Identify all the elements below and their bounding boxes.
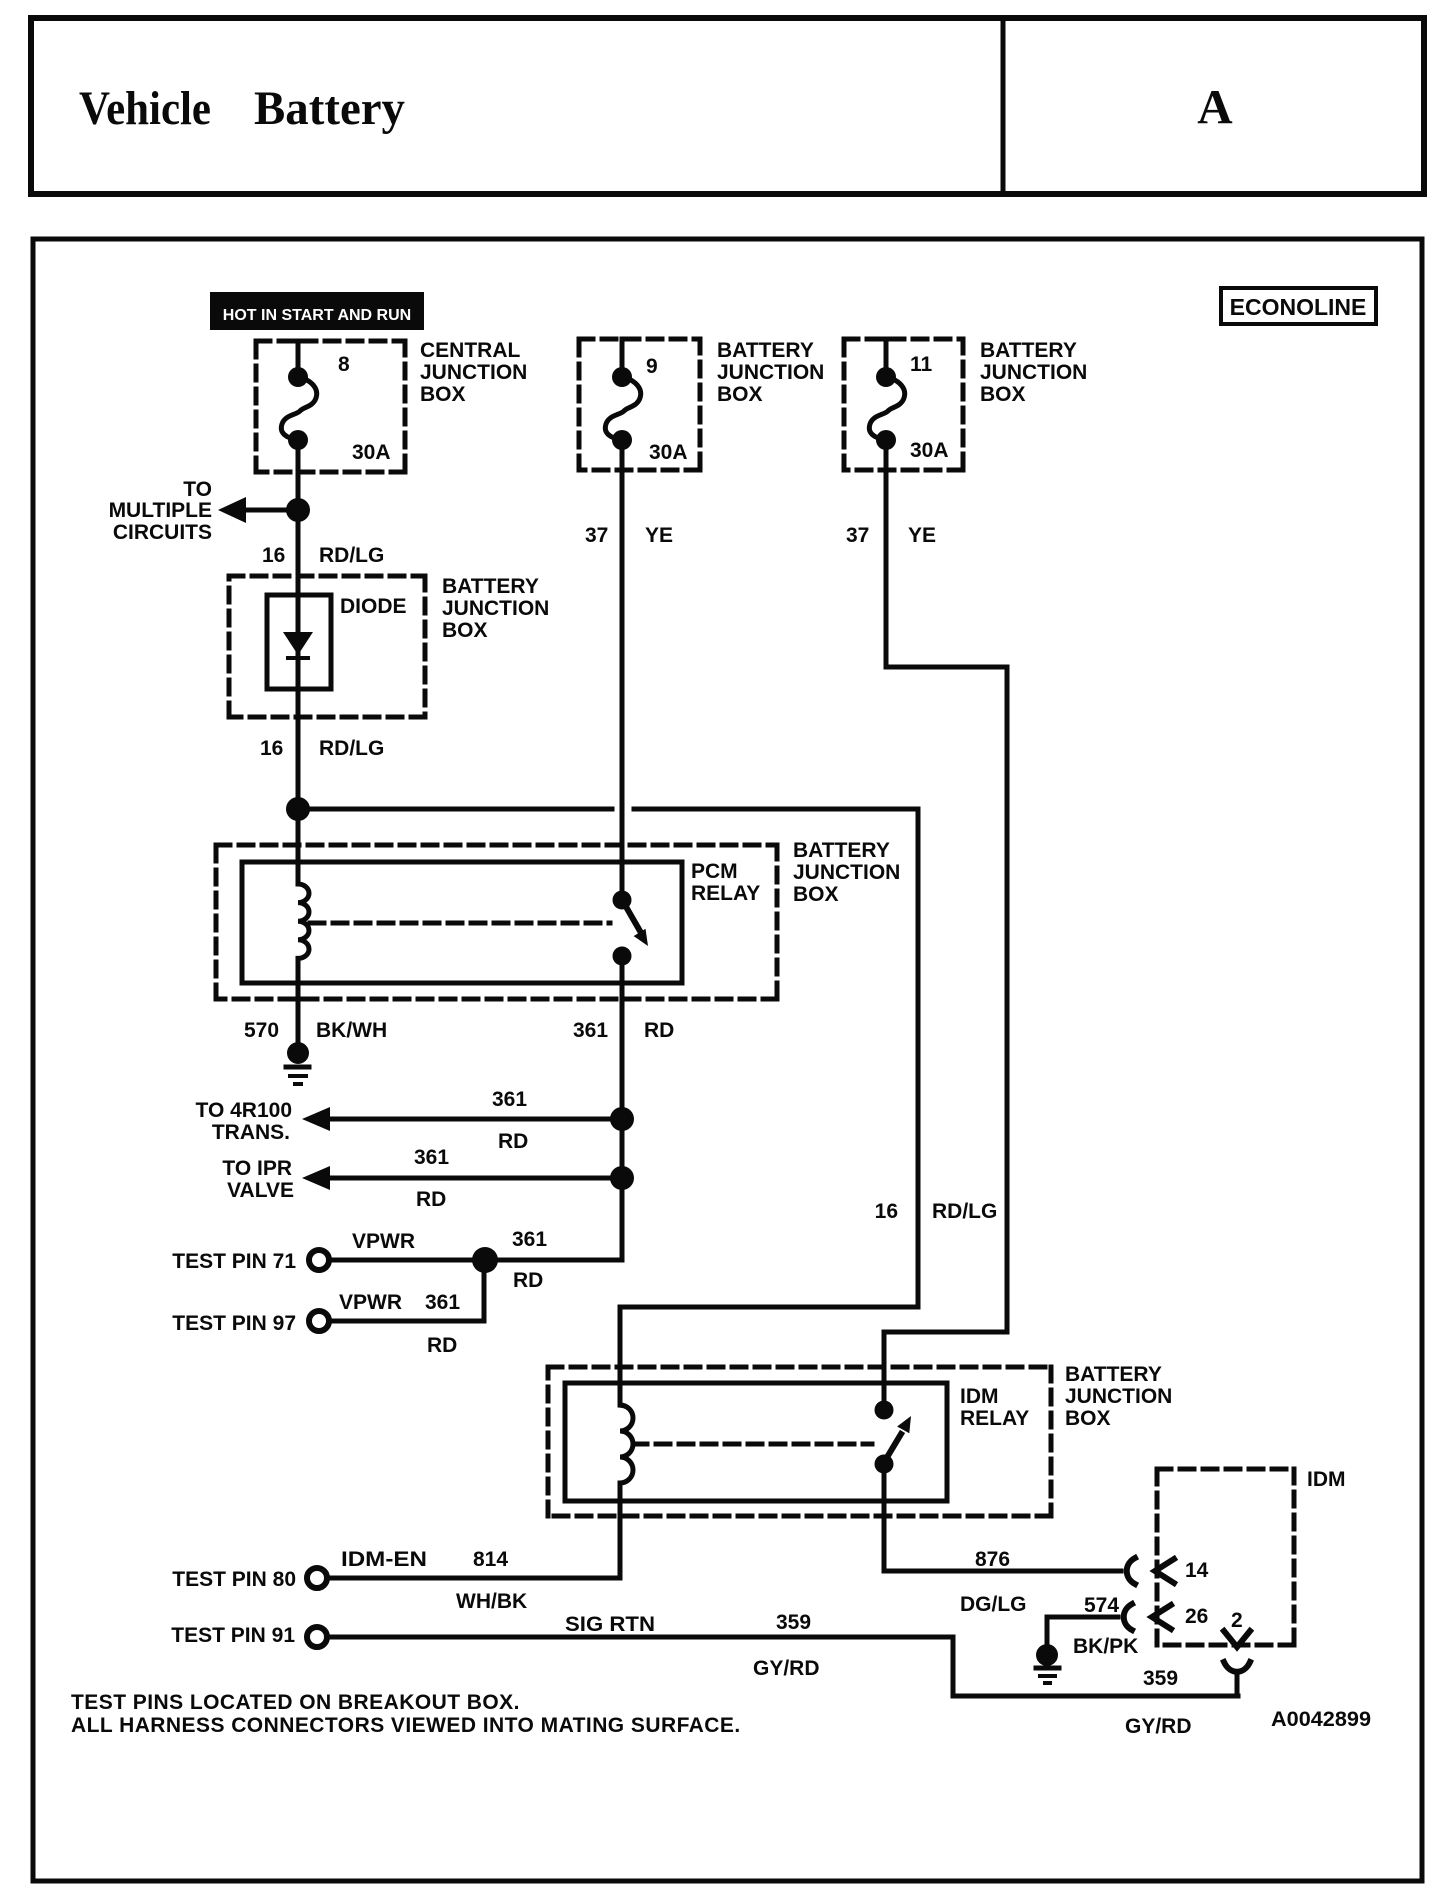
svg-text:GY/RD: GY/RD: [1125, 1715, 1192, 1738]
svg-text:CIRCUITS: CIRCUITS: [113, 521, 212, 544]
connector pin 2 (female half): [1224, 1662, 1250, 1696]
svg-text:Vehicle: Vehicle: [79, 82, 211, 135]
title text "Vehicle Battery": [79, 82, 405, 135]
test pin 80: [172, 1568, 327, 1591]
wire fuse 11 top stub: [884, 339, 889, 377]
wire label SIG RTN 359 GY/RD: [565, 1611, 820, 1680]
fuse F9 dashed box (battery junction box): [579, 339, 700, 470]
svg-text:30A: 30A: [352, 441, 391, 464]
svg-text:TEST PIN 80: TEST PIN 80: [172, 1568, 296, 1591]
PCM relay switch: [613, 891, 649, 966]
svg-text:11: 11: [910, 353, 933, 376]
wire 574 to connector 26: [1047, 1617, 1118, 1644]
svg-text:RD: RD: [427, 1334, 457, 1357]
banner HOT IN START AND RUN: [210, 292, 424, 330]
wire label VPWR 361 RD (pin 71): [352, 1228, 547, 1292]
svg-text:IDM-EN: IDM-EN: [341, 1548, 427, 1571]
svg-text:TO IPR: TO IPR: [222, 1157, 292, 1180]
svg-text:IDM: IDM: [960, 1385, 999, 1408]
svg-text:RD: RD: [513, 1269, 543, 1292]
wire IDM switch to connector 14 (876): [884, 1464, 1121, 1571]
svg-text:VALVE: VALVE: [227, 1179, 294, 1202]
svg-text:BATTERY: BATTERY: [717, 339, 814, 362]
svg-text:876: 876: [975, 1548, 1010, 1571]
svg-text:Battery: Battery: [254, 82, 405, 135]
fuse F8 element: [281, 367, 316, 450]
svg-text:JUNCTION: JUNCTION: [980, 361, 1087, 384]
PCM relay dashed box (battery junction box): [216, 845, 777, 999]
svg-text:26: 26: [1185, 1605, 1208, 1628]
connector pin 2 (male pin, at IDM box bottom): [1224, 1609, 1250, 1647]
svg-text:BOX: BOX: [1065, 1407, 1111, 1430]
svg-text:A0042899: A0042899: [1271, 1708, 1371, 1731]
svg-text:VPWR: VPWR: [339, 1291, 402, 1314]
label CENTRAL JUNCTION BOX: [420, 339, 527, 406]
node junction VPWR: [472, 1247, 498, 1273]
svg-text:TEST PINS LOCATED ON BREAKOUT: TEST PINS LOCATED ON BREAKOUT BOX.: [71, 1691, 520, 1714]
svg-text:YE: YE: [645, 524, 673, 547]
label DIODE: [340, 595, 407, 618]
wire label 37 YE (fuse 9): [585, 524, 673, 547]
svg-text:TRANS.: TRANS.: [212, 1121, 290, 1144]
svg-text:RD/LG: RD/LG: [319, 544, 384, 567]
svg-text:RD/LG: RD/LG: [932, 1200, 997, 1223]
IDM relay inner box: [565, 1383, 947, 1501]
fuse F9 element: [605, 367, 640, 450]
svg-text:TEST PIN 97: TEST PIN 97: [172, 1312, 296, 1335]
svg-text:VPWR: VPWR: [352, 1230, 415, 1253]
node junction IPR tap: [610, 1166, 634, 1190]
wire label VPWR 361 RD (pin 97): [339, 1291, 460, 1357]
svg-text:TEST PIN 71: TEST PIN 71: [172, 1250, 296, 1273]
svg-text:37: 37: [585, 524, 608, 547]
wire PCM switch down to test pin 71 line: [620, 956, 625, 1259]
svg-text:RD: RD: [498, 1130, 528, 1153]
node junction 16 RD/LG branch: [286, 797, 310, 821]
svg-text:BOX: BOX: [980, 383, 1026, 406]
svg-text:30A: 30A: [910, 439, 949, 462]
connector pin 26 (male pin): [1152, 1605, 1208, 1629]
wire label 37 YE (fuse 11): [846, 524, 936, 547]
wire test pin 71 to 361 node: [331, 1258, 622, 1263]
page letter A: [1197, 79, 1233, 134]
wire SIG RTN 359: [329, 1637, 1238, 1696]
wire test pin 80 to IDM coil: [329, 1576, 620, 1581]
label IDM RELAY: [960, 1385, 1029, 1430]
wire label 574 BK/PK: [1073, 1594, 1138, 1658]
arrow TO MULTIPLE CIRCUITS: [218, 497, 298, 523]
svg-text:14: 14: [1185, 1559, 1209, 1582]
diode D1 symbol: [283, 632, 313, 658]
svg-text:ECONOLINE: ECONOLINE: [1230, 294, 1367, 320]
wire fuse 11 down and over: [884, 440, 1007, 1410]
fuse F8 value labels 8 / 30A: [338, 353, 391, 464]
test pin 91: [171, 1624, 327, 1647]
title block divider: [1001, 18, 1006, 194]
svg-text:TO: TO: [183, 478, 212, 501]
wire fuse 8 to diode: [296, 440, 301, 595]
fuse F11 dashed box (battery junction box): [844, 339, 963, 470]
wire label 361 RD (4R100): [492, 1088, 528, 1153]
svg-text:359: 359: [1143, 1667, 1178, 1690]
wire label 16 RD/LG (upper): [262, 544, 384, 567]
label TO IPR VALVE: [222, 1157, 294, 1202]
svg-text:30A: 30A: [649, 441, 688, 464]
svg-text:570: 570: [244, 1019, 279, 1042]
svg-text:CENTRAL: CENTRAL: [420, 339, 520, 362]
diode dashed box (battery junction box): [229, 576, 425, 717]
svg-text:16: 16: [260, 737, 283, 760]
label BATTERY JUNCTION BOX (PCM relay): [793, 839, 900, 906]
svg-text:TO 4R100: TO 4R100: [196, 1099, 293, 1122]
wire fuse 9 top stub: [620, 339, 625, 377]
svg-text:16: 16: [262, 544, 285, 567]
arrow TO IPR VALVE: [302, 1166, 622, 1190]
svg-text:JUNCTION: JUNCTION: [1065, 1385, 1172, 1408]
node junction 4R100 tap: [610, 1107, 634, 1131]
svg-text:BOX: BOX: [717, 383, 763, 406]
drawing number A0042899: [1271, 1708, 1371, 1731]
svg-text:MULTIPLE: MULTIPLE: [109, 499, 212, 522]
wire label 16 RD/LG (lower): [260, 737, 384, 760]
svg-text:8: 8: [338, 353, 350, 376]
wire test pin 97 branch: [331, 1260, 484, 1321]
svg-text:361: 361: [414, 1146, 449, 1169]
wire label 876 DG/LG: [960, 1548, 1027, 1616]
svg-text:JUNCTION: JUNCTION: [717, 361, 824, 384]
connector pin 14 (male pin): [1155, 1559, 1209, 1583]
wire fuse 8 top stub: [296, 341, 301, 377]
svg-text:BOX: BOX: [442, 619, 488, 642]
svg-text:361: 361: [512, 1228, 547, 1251]
label IDM: [1307, 1468, 1346, 1491]
IDM relay coil: [620, 1405, 633, 1578]
test pin 71: [172, 1250, 329, 1273]
svg-text:RD/LG: RD/LG: [319, 737, 384, 760]
ground G2: [1036, 1644, 1059, 1683]
wire branch to IDM relay coil (16 RD/LG): [298, 809, 918, 1405]
svg-text:361: 361: [492, 1088, 527, 1111]
wire label 359 GY/RD (right): [1125, 1667, 1192, 1738]
svg-text:JUNCTION: JUNCTION: [442, 597, 549, 620]
note TEST PINS LOCATED ON BREAKOUT BOX: [71, 1691, 520, 1714]
PCM relay coil: [298, 809, 309, 1040]
svg-text:37: 37: [846, 524, 869, 547]
svg-text:JUNCTION: JUNCTION: [420, 361, 527, 384]
svg-text:814: 814: [473, 1548, 508, 1571]
svg-text:BOX: BOX: [793, 883, 839, 906]
svg-text:RD: RD: [416, 1188, 446, 1211]
svg-text:BATTERY: BATTERY: [793, 839, 890, 862]
wire label 361 RD: [573, 1019, 674, 1042]
svg-text:361: 361: [573, 1019, 608, 1042]
wire label 570 BK/WH: [244, 1019, 387, 1042]
PCM relay actuating dashed link: [310, 921, 610, 926]
svg-text:DG/LG: DG/LG: [960, 1593, 1027, 1616]
svg-text:RD: RD: [644, 1019, 674, 1042]
label BATTERY JUNCTION BOX (IDM relay): [1065, 1363, 1172, 1430]
svg-text:ALL HARNESS CONNECTORS VIEWED: ALL HARNESS CONNECTORS VIEWED INTO MATIN…: [71, 1714, 741, 1737]
wire label 361 RD (IPR): [414, 1146, 449, 1211]
svg-text:RELAY: RELAY: [691, 882, 760, 905]
fuse F11 element: [869, 367, 904, 450]
svg-text:YE: YE: [908, 524, 936, 547]
svg-text:9: 9: [646, 355, 658, 378]
ECONOLINE tag: [1221, 288, 1376, 324]
svg-text:BATTERY: BATTERY: [1065, 1363, 1162, 1386]
PCM relay inner box: [242, 862, 682, 983]
svg-text:RELAY: RELAY: [960, 1407, 1029, 1430]
fuse F11 value labels 11 / 30A: [910, 353, 949, 462]
label BATTERY JUNCTION BOX (fuse 9): [717, 339, 824, 406]
svg-text:JUNCTION: JUNCTION: [793, 861, 900, 884]
svg-text:BK/PK: BK/PK: [1073, 1635, 1138, 1658]
label PCM RELAY: [691, 860, 760, 905]
fuse F8 dashed box (central junction box): [256, 341, 405, 472]
connector pin 14 (female half): [1127, 1558, 1135, 1584]
svg-text:DIODE: DIODE: [340, 595, 407, 618]
svg-text:PCM: PCM: [691, 860, 738, 883]
svg-text:GY/RD: GY/RD: [753, 1657, 820, 1680]
svg-text:SIG RTN: SIG RTN: [565, 1613, 655, 1636]
label TO MULTIPLE CIRCUITS: [109, 478, 212, 544]
svg-text:A: A: [1197, 79, 1233, 134]
test pin 97: [172, 1311, 329, 1335]
svg-text:361: 361: [425, 1291, 460, 1314]
arrow TO 4R100 TRANS: [302, 1107, 622, 1131]
connector pin 26 (female half): [1124, 1604, 1132, 1630]
label TO 4R100 TRANS.: [196, 1099, 293, 1144]
svg-text:BK/WH: BK/WH: [316, 1019, 387, 1042]
svg-text:IDM: IDM: [1307, 1468, 1346, 1491]
node junction at multiple circuits tap: [286, 498, 310, 522]
label BATTERY JUNCTION BOX (diode): [442, 575, 549, 642]
svg-text:574: 574: [1084, 1594, 1119, 1617]
IDM relay actuating dashed link: [633, 1442, 872, 1447]
IDM relay dashed box (battery junction box): [548, 1367, 1051, 1516]
svg-text:BATTERY: BATTERY: [980, 339, 1077, 362]
diode inner box: [267, 595, 331, 689]
svg-text:WH/BK: WH/BK: [456, 1590, 527, 1613]
IDM relay switch: [875, 1401, 912, 1474]
svg-text:BATTERY: BATTERY: [442, 575, 539, 598]
svg-text:2: 2: [1231, 1609, 1243, 1632]
fuse F9 value labels 9 / 30A: [646, 355, 688, 464]
wire label IDM-EN 814 WH/BK: [341, 1548, 527, 1613]
wire label 16 RD/LG (right): [875, 1200, 998, 1223]
svg-text:HOT IN START AND RUN: HOT IN START AND RUN: [223, 307, 411, 324]
IDM dashed box: [1157, 1469, 1294, 1645]
svg-text:BOX: BOX: [420, 383, 466, 406]
svg-text:359: 359: [776, 1611, 811, 1634]
svg-text:TEST PIN 91: TEST PIN 91: [171, 1624, 295, 1647]
note ALL HARNESS CONNECTORS VIEWED INTO MATING SURFACE: [71, 1714, 741, 1737]
wire fuse 9 down to PCM relay switch: [620, 440, 625, 900]
svg-text:16: 16: [875, 1200, 898, 1223]
ground G1: [286, 1042, 309, 1084]
wire through diode: [296, 595, 301, 809]
label BATTERY JUNCTION BOX (fuse 11): [980, 339, 1087, 406]
title block frame: [31, 18, 1424, 194]
